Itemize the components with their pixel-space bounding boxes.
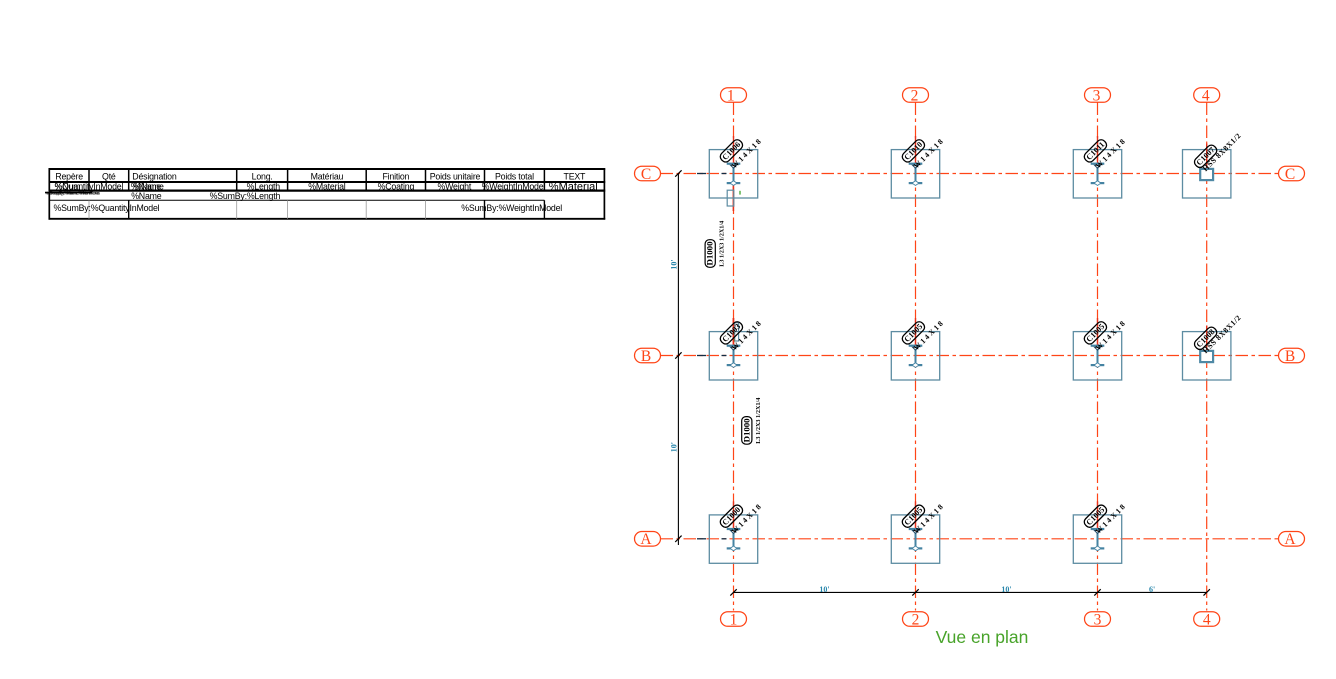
- svg-text:L3 1/2X3 1/2X1/4: L3 1/2X3 1/2X1/4: [755, 397, 762, 444]
- svg-text:D1000: D1000: [706, 241, 715, 265]
- svg-text:1: 1: [727, 87, 735, 104]
- svg-text:10': 10': [819, 585, 829, 594]
- svg-text:Repère: Repère: [55, 172, 83, 182]
- svg-text:Poids unitaire: Poids unitaire: [430, 172, 481, 182]
- svg-text:4: 4: [1202, 87, 1210, 104]
- svg-text:Vue en plan: Vue en plan: [936, 627, 1029, 647]
- svg-text:%Name: %Name: [133, 181, 164, 191]
- svg-text:10': 10': [1001, 585, 1011, 594]
- svg-text:%SumBy:%WeightInModel: %SumBy:%WeightInModel: [461, 203, 562, 213]
- svg-text:D1000: D1000: [742, 418, 751, 442]
- svg-text:10': 10': [669, 259, 678, 269]
- svg-text:2: 2: [911, 87, 919, 104]
- svg-text:A: A: [640, 531, 652, 548]
- svg-text:%Material: %Material: [549, 181, 598, 193]
- svg-text:Finition: Finition: [382, 172, 409, 182]
- svg-text:6': 6': [1149, 585, 1155, 594]
- svg-text:%Name: %Name: [131, 191, 162, 201]
- svg-text:%SumBy:%QuantityInModel: %SumBy:%QuantityInModel: [54, 203, 160, 213]
- svg-text:Qté: Qté: [102, 172, 116, 182]
- svg-text:Désignation: Désignation: [132, 172, 177, 182]
- svg-text:B: B: [641, 348, 651, 365]
- svg-text:2: 2: [912, 611, 920, 628]
- svg-text:3: 3: [1093, 87, 1101, 104]
- svg-text:Poids total: Poids total: [495, 172, 534, 182]
- svg-text:C: C: [641, 166, 651, 183]
- svg-text:C: C: [1285, 166, 1295, 183]
- svg-text:%Material: %Material: [308, 181, 346, 191]
- svg-text:%WeightInModel: %WeightInModel: [482, 181, 546, 191]
- svg-text:%Weight: %Weight: [437, 181, 471, 191]
- svg-text:Long.: Long.: [252, 172, 273, 182]
- svg-text:%GroupBy:%Name.%NumRows: %GroupBy:%Name.%NumRows: [46, 190, 100, 195]
- svg-text:A: A: [1284, 531, 1296, 548]
- svg-text:L3 1/2X3 1/2X1/4: L3 1/2X3 1/2X1/4: [719, 220, 726, 267]
- svg-text:%SumBy:%Length: %SumBy:%Length: [210, 191, 281, 201]
- svg-text:10': 10': [669, 442, 678, 452]
- svg-text:%Length: %Length: [247, 181, 281, 191]
- svg-text:4: 4: [1203, 611, 1211, 628]
- svg-text:3: 3: [1094, 611, 1102, 628]
- svg-text:Matériau: Matériau: [311, 172, 344, 182]
- svg-text:1: 1: [730, 611, 738, 628]
- svg-text:B: B: [1285, 348, 1295, 365]
- svg-text:%Coating: %Coating: [378, 181, 415, 191]
